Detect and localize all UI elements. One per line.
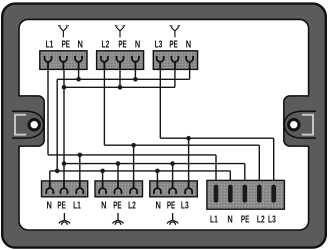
- C.PE stem: [172, 164, 174, 188]
- labels bottom A B C: [47, 199, 189, 211]
- node N2: [133, 77, 138, 82]
- plug symbol below block A: [59, 213, 70, 225]
- N3 stem: [189, 62, 191, 79]
- labels block D: [210, 213, 276, 225]
- PE top rail: [64, 86, 175, 88]
- clamp cups T1: [45, 56, 52, 62]
- terminal block D (bottom right, L1 N PE L2 L3): [207, 180, 285, 209]
- node N1: [76, 77, 81, 82]
- svg-text:PE: PE: [167, 200, 176, 211]
- right mounting ear: [284, 96, 316, 146]
- svg-text:L1: L1: [46, 38, 54, 50]
- N top rail: [57, 78, 189, 80]
- labels top T1 T2 T3: [46, 38, 191, 50]
- D.L3 stem: [273, 138, 275, 187]
- svg-text:L2: L2: [128, 199, 136, 211]
- svg-text:N: N: [156, 199, 161, 210]
- svg-text:PE: PE: [118, 39, 127, 50]
- B.L2 stem: [133, 145, 135, 188]
- PE trunk: [63, 62, 65, 188]
- L3 trunk: [159, 62, 161, 138]
- svg-text:N: N: [78, 38, 83, 49]
- L1 trunk: [47, 62, 49, 155]
- C.L3 stem: [188, 138, 190, 188]
- terminal block B (bottom, N PE L2): [95, 181, 143, 197]
- node N trunk T: [55, 169, 60, 174]
- N bottom rail: [50, 170, 231, 172]
- svg-text:L2: L2: [102, 38, 110, 50]
- node B.N: [100, 169, 105, 174]
- PE3 stem: [174, 62, 176, 87]
- svg-text:PE: PE: [113, 200, 122, 211]
- node B.PE: [116, 161, 121, 166]
- PE2 stem: [119, 62, 121, 87]
- A.N stem: [49, 171, 51, 188]
- svg-text:L3: L3: [155, 38, 163, 50]
- connector symbol above T3: [170, 26, 181, 38]
- svg-text:PE: PE: [169, 39, 178, 50]
- svg-text:L3: L3: [181, 199, 189, 211]
- svg-text:PE: PE: [57, 200, 66, 211]
- mounting hole: [29, 119, 40, 130]
- C.N stem: [156, 171, 158, 188]
- D.L1 stem: [215, 155, 217, 187]
- plug symbol below block B: [112, 213, 123, 225]
- plug symbol below block C: [167, 213, 178, 225]
- terminal block C (bottom, N PE L3): [150, 181, 198, 197]
- svg-text:PE: PE: [62, 39, 71, 50]
- D.L2 stem: [258, 145, 260, 187]
- terminal block A (bottom, N PE L1): [42, 181, 88, 197]
- node A.L1: [78, 153, 83, 158]
- N1 stem: [78, 62, 80, 79]
- svg-text:N: N: [135, 38, 140, 49]
- keyhole plate: [12, 111, 44, 138]
- svg-text:L2: L2: [257, 213, 265, 225]
- svg-text:N: N: [186, 38, 191, 49]
- L3 rail: [160, 137, 273, 139]
- node PE1: [62, 85, 67, 90]
- svg-text:N: N: [227, 213, 232, 224]
- svg-text:PE: PE: [241, 214, 250, 225]
- B.PE stem: [117, 164, 119, 188]
- node PE2: [118, 85, 123, 90]
- connector symbol above T1: [58, 26, 69, 38]
- terminal block T2 (top, L2 PE N): [97, 51, 144, 70]
- svg-text:L1: L1: [73, 199, 81, 211]
- node C.L3: [186, 136, 191, 141]
- D.N stem: [229, 171, 231, 187]
- node A.PE: [62, 161, 67, 166]
- bracket slot: [15, 115, 26, 135]
- terminal block T3 (top, L3 PE N): [153, 51, 197, 70]
- node C.N: [155, 169, 160, 174]
- wires: verticals (trunks and stems): [48, 62, 274, 188]
- N2 stem: [134, 62, 136, 79]
- node C.PE: [170, 161, 175, 166]
- terminal block T1 (top, L1 PE N): [40, 51, 87, 70]
- L2 rail: [104, 144, 259, 146]
- L1 rail: [48, 154, 216, 156]
- N trunk: [56, 79, 58, 171]
- A.L1 stem: [79, 155, 81, 188]
- wires: horizontal rails: [48, 79, 274, 171]
- D.PE stem: [244, 164, 246, 187]
- connector symbol above T2: [115, 26, 126, 38]
- svg-text:N: N: [101, 199, 106, 210]
- left mounting ear: [12, 96, 44, 146]
- svg-text:N: N: [47, 199, 52, 210]
- L2 trunk: [103, 62, 105, 145]
- svg-text:L1: L1: [210, 213, 218, 225]
- junction dots: [55, 77, 191, 173]
- PE bottom rail: [64, 163, 245, 165]
- B.N stem: [102, 171, 104, 188]
- node B.L2: [131, 143, 136, 148]
- svg-text:L3: L3: [268, 213, 276, 225]
